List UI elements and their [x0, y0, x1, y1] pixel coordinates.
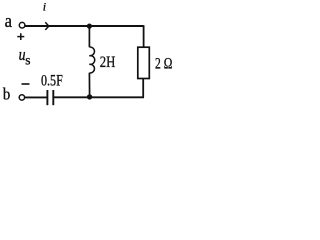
wire: inductor top lead — [88, 26, 90, 47]
svg-text:s: s — [25, 52, 30, 67]
capacitor C 0.5F plate right — [52, 90, 54, 105]
resistor R 2Ω — [138, 47, 150, 78]
bottom wire — [54, 96, 144, 98]
terminal b — [19, 95, 24, 100]
svg-text:i: i — [43, 0, 46, 14]
wire: inductor bottom lead — [88, 73, 90, 97]
wire: terminal b lead — [25, 96, 48, 98]
svg-text:b: b — [3, 85, 10, 104]
svg-text:2 Ω: 2 Ω — [155, 56, 172, 73]
current arrow — [45, 22, 49, 30]
wire: right branch bottom lead — [142, 79, 144, 98]
svg-text:a: a — [5, 11, 13, 32]
svg-text:0.5F: 0.5F — [41, 73, 63, 90]
top wire — [25, 25, 144, 27]
inductor L 2H — [89, 47, 94, 73]
capacitor C 0.5F plate left — [46, 90, 48, 105]
plus sign — [17, 33, 24, 40]
wire: right branch top lead — [143, 25, 145, 47]
node: top junction dot — [87, 24, 92, 29]
node: bottom junction dot — [87, 94, 92, 99]
minus sign — [22, 83, 30, 85]
terminal a — [19, 22, 25, 28]
svg-text:2H: 2H — [100, 54, 116, 71]
